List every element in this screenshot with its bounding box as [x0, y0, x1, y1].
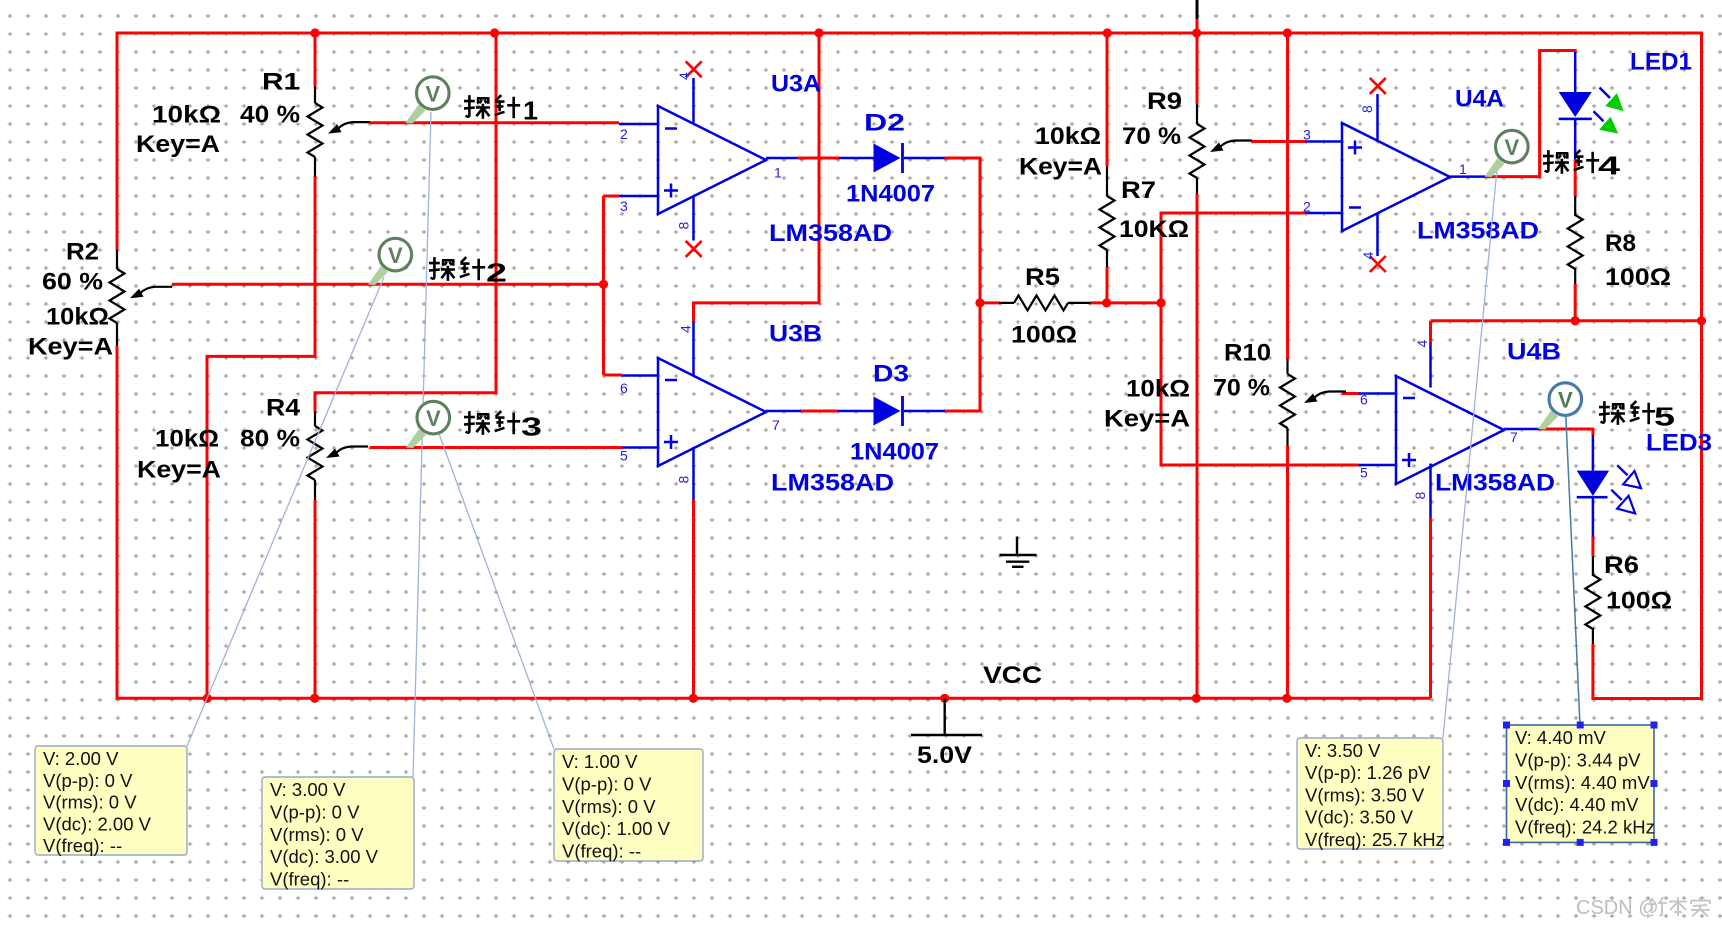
op-amp U4A: [1305, 94, 1485, 256]
wire right edge vertical: [1593, 32, 1702, 699]
probe label 探针4: [1543, 150, 1599, 174]
svg-text:LM358AD: LM358AD: [1417, 218, 1539, 245]
svg-text:V: V: [425, 82, 440, 107]
svg-text:LM358AD: LM358AD: [771, 470, 894, 497]
wire R9 top from bus: [1196, 19, 1199, 104]
wire D3 out segment: [945, 410, 982, 413]
svg-text:V: 1.00 V: V: 1.00 V: [562, 751, 638, 772]
svg-text:10kΩ: 10kΩ: [1035, 123, 1101, 150]
diode D2: [839, 157, 945, 160]
svg-text:V(p-p): 0 V: V(p-p): 0 V: [270, 801, 360, 822]
wire combiner to R5: [980, 301, 999, 304]
svg-text:1: 1: [523, 96, 538, 126]
node junction top bus / R9: [1192, 28, 1201, 37]
svg-text:V: 3.00 V: V: 3.00 V: [270, 779, 346, 800]
svg-text:VCC: VCC: [983, 662, 1042, 689]
wire top stub red part: [1196, 19, 1199, 33]
svg-text:V(dc): 2.00 V: V(dc): 2.00 V: [43, 813, 152, 834]
wire R1 bottom jog to bus: [207, 176, 315, 698]
node junction R8 / rail y321: [1571, 316, 1580, 325]
svg-text:U3B: U3B: [769, 321, 822, 348]
svg-text:V: 4.40 mV: V: 4.40 mV: [1515, 727, 1606, 748]
svg-text:5: 5: [620, 448, 628, 464]
wire R8 bottom to rail: [1574, 284, 1577, 321]
svg-text:V(dc): 4.40 mV: V(dc): 4.40 mV: [1515, 794, 1639, 815]
wire LED1 to R8: [1574, 159, 1577, 196]
wire bottom VCC bus: [116, 697, 1431, 700]
probe V4: [1485, 130, 1529, 177]
top power stub black: [1196, 0, 1199, 19]
svg-text:60 %: 60 %: [42, 269, 103, 296]
svg-text:100Ω: 100Ω: [1606, 588, 1672, 615]
svg-text:V(dc): 3.50 V: V(dc): 3.50 V: [1305, 807, 1414, 828]
diode D3: [838, 410, 945, 413]
svg-text:V(rms): 4.40 mV: V(rms): 4.40 mV: [1515, 772, 1650, 793]
svg-text:2: 2: [620, 126, 628, 142]
measurement box probe5 selected: [1503, 722, 1658, 846]
svg-text:40 %: 40 %: [240, 102, 300, 129]
svg-text:U4A: U4A: [1455, 86, 1504, 113]
wire U4B pin4 stub red: [1429, 321, 1432, 343]
svg-text:Key=A: Key=A: [137, 457, 221, 484]
wire node to U4B pin5: [1161, 303, 1359, 465]
probe V1: [406, 77, 450, 124]
svg-text:U3A: U3A: [771, 71, 821, 98]
svg-text:V(p-p): 0 V: V(p-p): 0 V: [43, 770, 133, 791]
wire R2 bottom to bottom bus: [116, 346, 119, 700]
svg-text:V: V: [1558, 388, 1573, 413]
svg-text:V(rms): 3.50 V: V(rms): 3.50 V: [1305, 784, 1425, 805]
svg-text:4: 4: [1360, 252, 1376, 260]
svg-text:8: 8: [676, 222, 692, 230]
wire U3B power pin4 path from top bus: [694, 33, 820, 322]
measurement box probe4: [1297, 738, 1445, 850]
wire R7 top from bus: [1106, 33, 1109, 167]
node junction bottom bus / 5.0V supply: [940, 694, 949, 703]
resistor R8: [1568, 196, 1671, 291]
svg-text:7: 7: [772, 417, 780, 433]
wire R4 bottom: [314, 500, 317, 698]
resistor R6: [1585, 552, 1672, 644]
svg-text:V: V: [426, 406, 441, 431]
svg-text:10kΩ: 10kΩ: [155, 426, 219, 453]
svg-text:V(rms): 0 V: V(rms): 0 V: [270, 824, 364, 845]
svg-text:100Ω: 100Ω: [1605, 264, 1671, 291]
resistor R10 potentiometer: [1104, 340, 1346, 447]
wire R9 wiper to U4A pin3: [1252, 140, 1305, 143]
op-amp U3A: [619, 78, 797, 241]
svg-text:V: V: [388, 243, 403, 268]
wire R9 bottom to bottom bus: [1196, 194, 1199, 698]
svg-text:7: 7: [1510, 429, 1518, 445]
node junction right edge / rail y321: [1697, 316, 1706, 325]
svg-text:6: 6: [1360, 392, 1368, 408]
wire left vertical R2 top: [116, 32, 119, 251]
svg-text:2: 2: [486, 258, 507, 288]
op-amp U4B: [1359, 343, 1541, 518]
wire U4B pin8 to bus: [1429, 518, 1432, 699]
ground: [1000, 537, 1037, 567]
wire node2 vertical to pin3 and pin6: [604, 196, 622, 375]
wire R10 wiper to U4B pin6: [1342, 392, 1359, 395]
node junction bottom bus / R9: [1192, 694, 1201, 703]
svg-text:10kΩ: 10kΩ: [1126, 376, 1190, 403]
node junction node D2-D3 outputs / R5: [975, 298, 984, 307]
svg-text:LM358AD: LM358AD: [1435, 470, 1555, 497]
wire U4B out corner: [1540, 429, 1593, 435]
power supply 5.0V: [911, 698, 982, 735]
probe label 探针3: [464, 411, 520, 435]
node junction top bus / R1: [310, 28, 319, 37]
svg-text:R8: R8: [1605, 230, 1636, 257]
svg-text:U4B: U4B: [1507, 339, 1561, 366]
svg-text:V: 3.50 V: V: 3.50 V: [1305, 740, 1381, 761]
probe leader line to box4: [1443, 169, 1497, 738]
svg-text:5: 5: [1654, 402, 1675, 432]
wire R1 top: [314, 33, 317, 87]
probe label 探针5: [1599, 401, 1655, 425]
svg-text:10kΩ: 10kΩ: [152, 102, 221, 129]
svg-text:4: 4: [1414, 340, 1430, 348]
svg-text:1: 1: [774, 165, 782, 181]
svg-text:V(freq): --: V(freq): --: [562, 841, 641, 862]
probe V5: [1538, 383, 1582, 430]
svg-text:4: 4: [678, 325, 694, 333]
svg-text:V(rms): 0 V: V(rms): 0 V: [43, 792, 137, 813]
node junction bottom bus / R4: [310, 694, 319, 703]
node junction bottom bus / R10: [1282, 694, 1291, 703]
svg-text:8: 8: [1412, 492, 1428, 500]
probe V3: [406, 401, 450, 448]
svg-text:6: 6: [620, 380, 628, 396]
wire right rail y321: [1431, 319, 1702, 322]
svg-text:R4: R4: [266, 395, 301, 422]
node junction bottom bus / U3B pin8: [689, 694, 698, 703]
node junction top bus / R10: [1283, 28, 1292, 37]
svg-text:3: 3: [620, 198, 628, 214]
svg-text:Key=A: Key=A: [136, 131, 220, 158]
svg-text:3: 3: [521, 412, 542, 442]
svg-text:1: 1: [1459, 161, 1467, 177]
resistor R1 potentiometer: [136, 69, 370, 177]
svg-text:R5: R5: [1025, 264, 1060, 291]
resistor R5: [999, 264, 1090, 349]
svg-text:1N4007: 1N4007: [846, 181, 935, 208]
node junction R5 / R7: [1102, 298, 1111, 307]
svg-text:10KΩ: 10KΩ: [1119, 216, 1189, 243]
wire probe1 R1 wiper to U3A pin2: [370, 121, 619, 124]
probe leader line to box2: [413, 112, 431, 777]
op-amp U3B: [622, 322, 802, 501]
wire U3A output segment: [797, 157, 839, 160]
wire LED3 to R6: [1591, 537, 1594, 557]
svg-text:V(freq): 25.7 kHz: V(freq): 25.7 kHz: [1305, 829, 1445, 850]
node junction bottom bus / R1 branch: [203, 694, 212, 703]
svg-text:V(freq): --: V(freq): --: [43, 835, 122, 856]
resistor R9 potentiometer: [1019, 88, 1252, 194]
node junction top bus / U3B pin4 feed: [814, 28, 823, 37]
svg-text:4: 4: [676, 72, 692, 80]
svg-text:V(freq): 24.2 kHz: V(freq): 24.2 kHz: [1515, 817, 1655, 838]
probe leader line to box1: [187, 277, 384, 746]
svg-text:V(rms): 0 V: V(rms): 0 V: [562, 796, 656, 817]
svg-text:R10: R10: [1224, 340, 1271, 367]
svg-text:Key=A: Key=A: [1019, 154, 1102, 181]
svg-text:70 %: 70 %: [1213, 375, 1270, 402]
node junction R5 node / comparator inputs: [1156, 298, 1165, 307]
svg-text:CSDN @: CSDN @: [1576, 897, 1659, 919]
wire top VCC bus: [117, 32, 1704, 35]
LED1: [1559, 49, 1692, 160]
measurement box probe2: [35, 746, 187, 856]
svg-text:1N4007: 1N4007: [850, 439, 939, 466]
svg-text:D3: D3: [873, 361, 909, 388]
wire R10 bottom to bus: [1286, 446, 1289, 698]
svg-text:R9: R9: [1147, 88, 1182, 115]
probe label 探针2: [429, 257, 485, 281]
svg-text:V(dc): 3.00 V: V(dc): 3.00 V: [270, 846, 379, 867]
svg-text:5: 5: [1360, 465, 1368, 481]
probe leader line to box5: [1566, 409, 1581, 725]
measurement box probe1: [262, 777, 414, 890]
measurement box probe3: [554, 749, 703, 862]
svg-text:R2: R2: [66, 239, 99, 266]
resistor R2 potentiometer: [28, 239, 172, 361]
wire probe2 R2 wiper to node: [172, 283, 604, 286]
svg-text:3: 3: [1303, 127, 1311, 143]
svg-text:70 %: 70 %: [1122, 123, 1181, 150]
svg-text:100Ω: 100Ω: [1011, 322, 1077, 349]
node junction node probe2 / U3A pin3 / U3B pin6: [599, 280, 608, 289]
node junction top bus / R7: [1103, 28, 1112, 37]
resistor R7: [1100, 167, 1190, 268]
wire R10 top from bus: [1286, 33, 1289, 359]
svg-text:10kΩ: 10kΩ: [46, 304, 109, 331]
svg-text:2: 2: [1303, 199, 1311, 215]
resistor R4 potentiometer: [137, 395, 368, 501]
wire probe3 R4 wiper to U3B pin5: [370, 446, 622, 449]
wire R6 bottom: [1591, 644, 1594, 700]
node junction top bus / R4 feed: [490, 28, 499, 37]
LED3: [1577, 430, 1712, 537]
wire D2 out to combiner node: [945, 158, 981, 411]
wire R4 top from top bus: [315, 33, 496, 411]
svg-text:5.0V: 5.0V: [917, 742, 972, 769]
wire U3B pin8 to bottom bus: [692, 500, 695, 698]
wire R5 right to node: [1090, 301, 1161, 304]
svg-text:V(p-p): 0 V: V(p-p): 0 V: [562, 773, 652, 794]
svg-text:LED1: LED1: [1630, 49, 1692, 76]
svg-text:R1: R1: [262, 69, 300, 96]
svg-text:Key=A: Key=A: [28, 334, 113, 361]
svg-text:LM358AD: LM358AD: [769, 220, 892, 247]
probe V2: [368, 238, 412, 285]
svg-text:V(p-p): 1.26 pV: V(p-p): 1.26 pV: [1305, 762, 1431, 783]
probe label 探针1: [464, 95, 520, 119]
svg-text:8: 8: [1359, 105, 1375, 113]
svg-text:8: 8: [676, 476, 692, 484]
probe leader line to box3: [438, 431, 554, 749]
svg-text:V: 2.00 V: V: 2.00 V: [43, 748, 119, 769]
svg-text:80 %: 80 %: [240, 426, 300, 453]
svg-text:4: 4: [1598, 151, 1621, 181]
svg-text:R6: R6: [1604, 552, 1639, 579]
svg-text:V(p-p): 3.44 pV: V(p-p): 3.44 pV: [1515, 749, 1641, 770]
svg-text:V(dc): 1.00 V: V(dc): 1.00 V: [562, 818, 671, 839]
wire U3B output segment: [801, 410, 838, 413]
svg-text:D2: D2: [864, 110, 905, 137]
wire U4A output to LED1 top: [1485, 51, 1575, 177]
svg-text:R7: R7: [1121, 177, 1156, 204]
wire node to U4A pin2: [1161, 213, 1305, 303]
wire R7 bottom to node: [1106, 267, 1109, 303]
svg-text:V(freq): --: V(freq): --: [270, 869, 349, 890]
op-amp U3A X marks: [686, 61, 702, 77]
svg-text:Key=A: Key=A: [1104, 406, 1190, 433]
svg-text:V: V: [1504, 135, 1519, 160]
svg-text:LED3: LED3: [1646, 430, 1712, 457]
